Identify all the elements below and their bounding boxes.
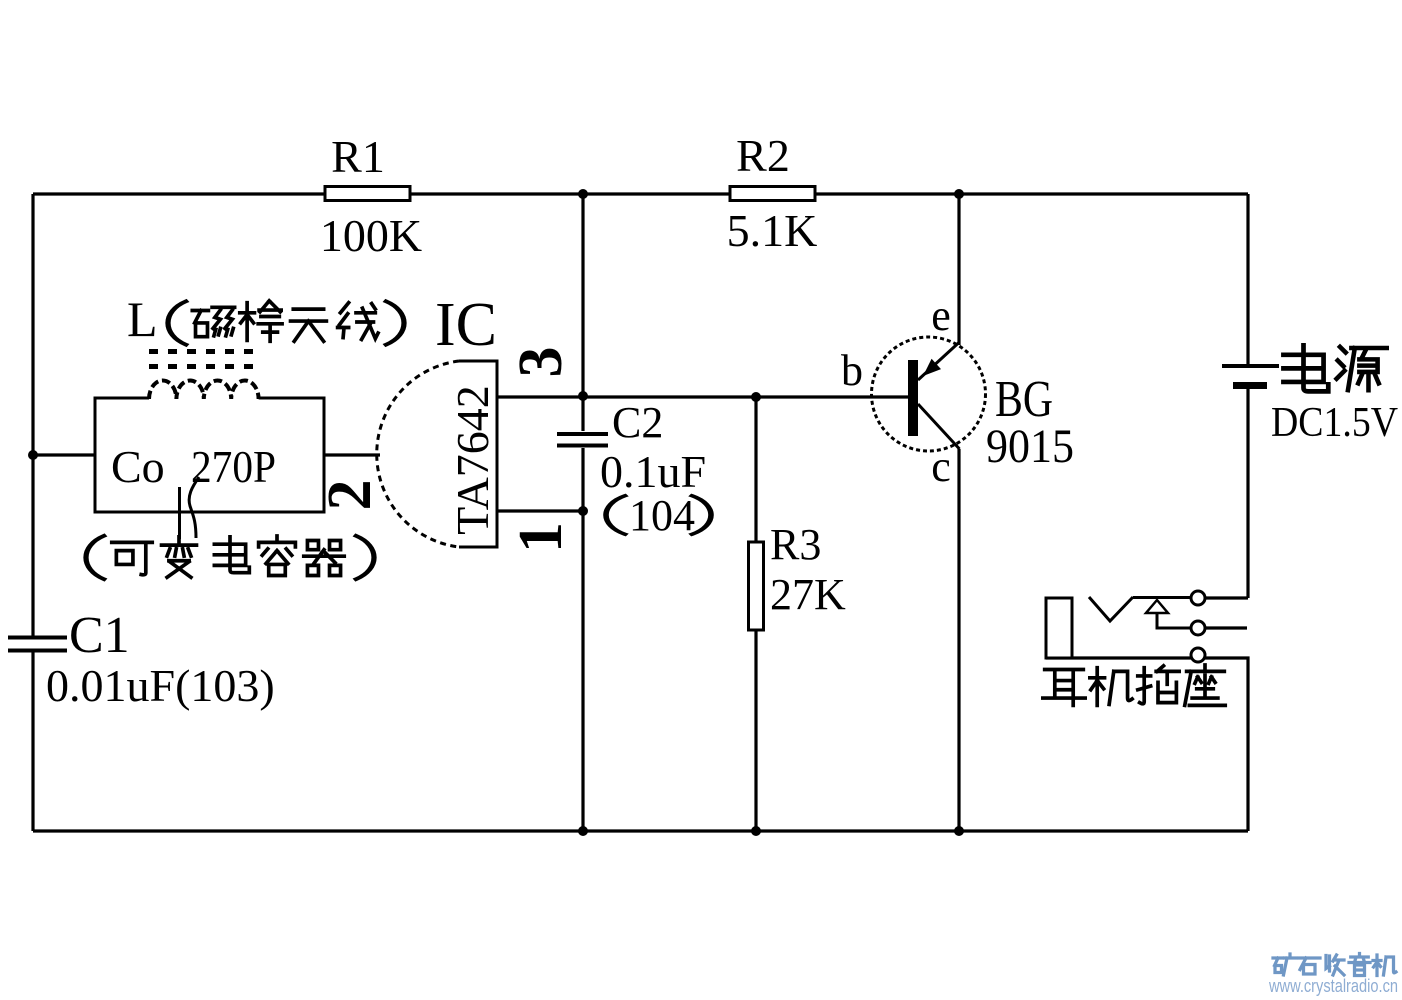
headphone jack body [1046, 598, 1072, 658]
capacitor C2 [557, 434, 608, 446]
resistor R1 [325, 187, 410, 201]
svg-text:0.01uF(103): 0.01uF(103) [46, 660, 275, 711]
jack terminal 2 [1191, 621, 1205, 635]
svg-text:Co: Co [111, 441, 165, 492]
wire jack switch stub [1206, 626, 1247, 629]
node junction bottom-right [954, 826, 964, 836]
svg-text:0.1uF: 0.1uF [600, 446, 706, 497]
svg-text:DC1.5V: DC1.5V [1271, 400, 1398, 446]
headphone jack plug notch [1089, 597, 1133, 621]
label headphone jack [1043, 665, 1225, 705]
node junction R3 top [751, 392, 761, 402]
node junction pin1 [578, 506, 588, 516]
jack terminal 1 [1191, 591, 1205, 605]
svg-text:2: 2 [316, 480, 384, 511]
svg-text:1: 1 [507, 522, 575, 553]
svg-text:270P: 270P [191, 441, 276, 492]
wire right rail upper (battery) [1206, 194, 1248, 598]
transistor base bar [908, 360, 918, 436]
svg-text:c: c [931, 442, 951, 491]
svg-text:3: 3 [507, 347, 575, 378]
watermark logo [1273, 954, 1396, 976]
svg-text:C1: C1 [69, 607, 130, 664]
wire bottom rail [33, 829, 1248, 832]
svg-text:27K: 27K [770, 570, 846, 619]
svg-text:5.1K: 5.1K [727, 205, 818, 256]
headphone jack switch arm triangle [1146, 600, 1168, 613]
wire collector vertical [957, 449, 960, 831]
svg-text:R1: R1 [331, 131, 385, 182]
capacitor C1 [8, 638, 67, 651]
resistor R3 [749, 542, 764, 630]
node junction bottom-center [578, 826, 588, 836]
wire left to tank box [33, 453, 95, 456]
variable capacitor Co tank box [95, 398, 324, 512]
node junction top-right [954, 189, 964, 199]
svg-text:TA7642: TA7642 [447, 385, 498, 535]
node junction top-center [578, 189, 588, 199]
svg-text:100K: 100K [320, 210, 422, 261]
svg-text:104: 104 [629, 491, 695, 540]
battery B1 plates [1222, 364, 1279, 368]
wire left rail [31, 194, 34, 831]
inductor L coil [149, 380, 259, 399]
label (variable capacitor) [86, 536, 374, 579]
wire jack sleeve to bottom rail [1046, 658, 1248, 831]
label power source [1283, 345, 1386, 391]
svg-text:e: e [931, 291, 951, 340]
transistor emitter arrow [923, 359, 941, 376]
node junction pin3 [578, 391, 588, 401]
wire pin3-to-base run [497, 395, 911, 398]
svg-text:R3: R3 [770, 520, 821, 569]
svg-text:9015: 9015 [986, 420, 1074, 473]
transistor emitter line [918, 342, 960, 380]
transistor Q1 BG9015 circle [872, 337, 986, 451]
node junction left tank [28, 450, 38, 460]
node junction R3 bottom [751, 826, 761, 836]
svg-text:b: b [841, 346, 863, 395]
wire top rail [33, 192, 1248, 195]
wire pin 1 [497, 509, 583, 512]
svg-text:R2: R2 [736, 130, 790, 181]
wire R3 branch [754, 397, 757, 831]
svg-text:IC: IC [435, 291, 497, 359]
op-amp style IC U1 TA7642 [459, 361, 499, 547]
wire emitter vertical [957, 194, 960, 345]
wire pin 2 [324, 453, 380, 456]
svg-text:www.crystalradio.cn: www.crystalradio.cn [1268, 976, 1398, 996]
svg-text:L: L [127, 291, 158, 347]
ferrite rod dashes [149, 352, 253, 367]
headphone jack tip line [1133, 596, 1190, 599]
wire center vertical (node 3 / C2) [581, 194, 584, 831]
variable capacitor leader line [178, 487, 181, 539]
transistor collector line [918, 404, 960, 449]
jack terminal 3 [1191, 648, 1205, 662]
svg-text:C2: C2 [612, 398, 663, 447]
resistor R2 [730, 187, 815, 201]
